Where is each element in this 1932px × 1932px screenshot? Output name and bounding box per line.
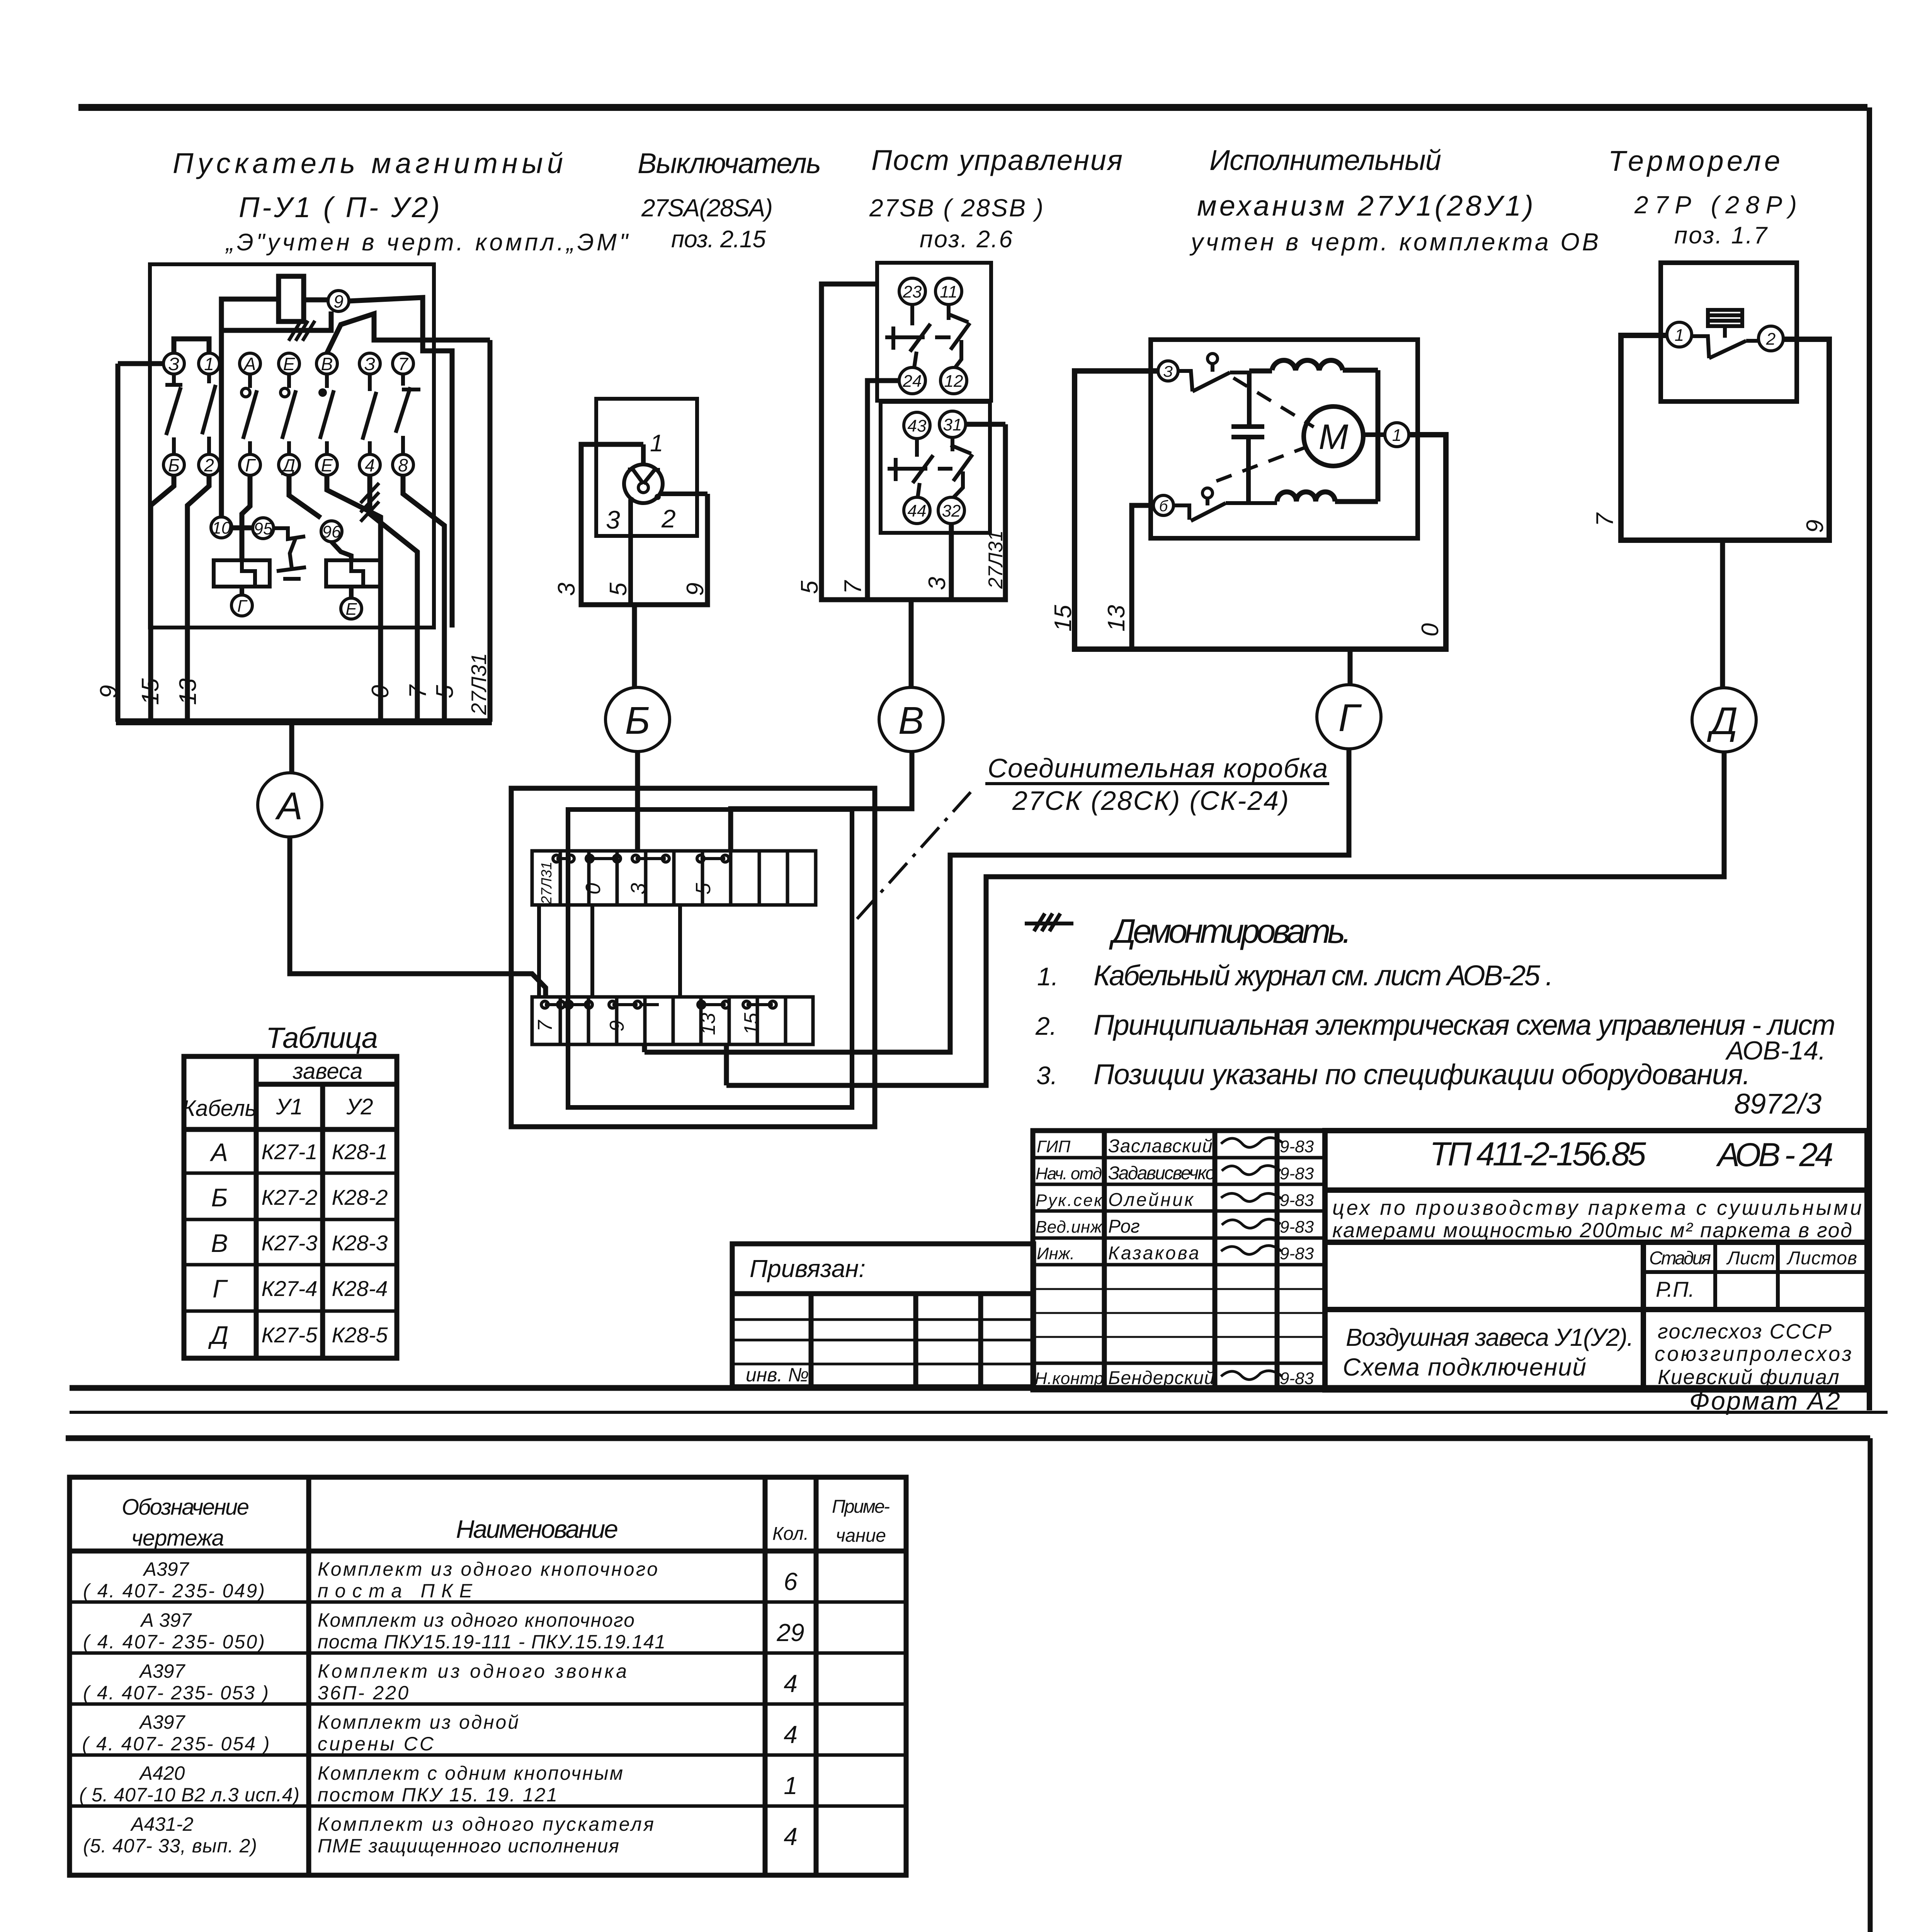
signature table entries xyxy=(1035,1136,1314,1388)
svg-text:поз. 1.7: поз. 1.7 xyxy=(1674,222,1768,249)
note 2 xyxy=(1035,1009,1835,1065)
control post 27SB assembly xyxy=(821,263,1005,600)
wire 32 down xyxy=(949,524,954,600)
relay inner box xyxy=(1661,263,1797,401)
lower strip labels xyxy=(534,1012,763,1035)
top terminal circles row xyxy=(163,353,413,374)
wire from Е to terminal 0 xyxy=(327,475,381,722)
jumper bracket over terminals 3-1 xyxy=(174,339,209,353)
svg-text:43: 43 xyxy=(908,417,927,435)
svg-text:Листов: Листов xyxy=(1786,1248,1857,1269)
cable table data xyxy=(208,1138,388,1349)
svg-text:З: З xyxy=(364,354,375,374)
svg-text:Позиции указаны по специфика: Позиции указаны по спецификации оборудов… xyxy=(1094,1058,1750,1090)
parts list header xyxy=(122,1495,890,1551)
post lower module box xyxy=(881,402,990,533)
svg-text:27Р (28Р): 27Р (28Р) xyxy=(1634,191,1797,219)
pin label 1 xyxy=(650,430,663,457)
junction box inner xyxy=(568,810,852,1107)
svg-text:У2: У2 xyxy=(346,1094,373,1119)
svg-text:завеса: завеса xyxy=(293,1059,362,1084)
svg-text:1: 1 xyxy=(204,354,214,374)
svg-text:27СК (28СК) (СК-24): 27СК (28СК) (СК-24) xyxy=(1012,786,1289,816)
svg-text:Выключатель: Выключатель xyxy=(638,147,821,179)
svg-text:13: 13 xyxy=(1103,605,1130,632)
title: control post header xyxy=(869,144,1122,253)
svg-text:7: 7 xyxy=(840,580,866,594)
svg-text:Нач. отд: Нач. отд xyxy=(1036,1164,1102,1183)
svg-text:9: 9 xyxy=(1802,520,1828,533)
svg-text:А: А xyxy=(243,354,256,374)
actuator 27У1 assembly xyxy=(1075,340,1446,649)
svg-text:Комплект с одним кнопочным: Комплект с одним кнопочным xyxy=(318,1762,623,1784)
svg-text:5: 5 xyxy=(605,582,632,596)
svg-text:К28-2: К28-2 xyxy=(332,1185,388,1209)
svg-text:10: 10 xyxy=(212,519,231,537)
post lower contact mushroom NC xyxy=(888,439,952,497)
contact 7 xyxy=(396,374,420,454)
post upper contact mushroom NC xyxy=(885,304,951,367)
switch 27SA assembly xyxy=(581,399,707,605)
svg-text:Д: Д xyxy=(1707,699,1738,743)
svg-text:8972/3: 8972/3 xyxy=(1734,1088,1821,1120)
svg-text:9: 9 xyxy=(333,291,344,311)
wire 31 to right edge xyxy=(966,422,1005,427)
parts row 5 xyxy=(79,1762,798,1806)
svg-text:1: 1 xyxy=(784,1772,798,1799)
contactor coil xyxy=(279,276,304,321)
svg-text:0: 0 xyxy=(582,883,605,895)
note 1 xyxy=(1037,959,1553,992)
wire 9 to internal node xyxy=(349,298,452,628)
svg-text:чертежа: чертежа xyxy=(131,1526,224,1551)
svg-text:Е: Е xyxy=(283,354,296,374)
lower winding xyxy=(1277,492,1378,502)
svg-text:2: 2 xyxy=(661,504,676,533)
svg-text:27SB ( 28SB ): 27SB ( 28SB ) xyxy=(869,194,1043,222)
svg-text:2: 2 xyxy=(1766,330,1776,349)
svg-text:К28-1: К28-1 xyxy=(332,1139,388,1164)
relay contact xyxy=(1692,336,1759,358)
svg-text:Е: Е xyxy=(345,600,357,619)
parts list table frame xyxy=(70,1477,906,1875)
svg-text:Комплект из одного звонка: Комплект из одного звонка xyxy=(318,1660,627,1682)
svg-text:Вед.инж: Вед.инж xyxy=(1036,1218,1103,1236)
lower strip jumper links xyxy=(541,1001,776,1008)
svg-text:Обозначение: Обозначение xyxy=(122,1495,249,1520)
svg-text:7: 7 xyxy=(405,684,431,698)
svg-text:Г: Г xyxy=(245,455,256,475)
cable В run xyxy=(731,752,912,851)
svg-text:К27-4: К27-4 xyxy=(261,1276,317,1301)
wire 24 to core 7 xyxy=(867,381,899,600)
cable Д drop wire xyxy=(1720,540,1725,689)
terminal circle 2 xyxy=(1759,326,1783,351)
movable bridge linkage 95-96 xyxy=(274,528,306,579)
svg-text:Задависвечко: Задависвечко xyxy=(1108,1163,1216,1184)
winding right wire xyxy=(1376,370,1381,502)
svg-text:цех по производству паркета с: цех по производству паркета с сушильными xyxy=(1332,1196,1862,1219)
svg-text:( 4. 407- 235- 053 ): ( 4. 407- 235- 053 ) xyxy=(83,1682,269,1704)
svg-text:Демонтировать.: Демонтировать. xyxy=(1109,912,1352,950)
svg-text:Е: Е xyxy=(321,455,333,475)
svg-text:27Л31: 27Л31 xyxy=(539,862,555,905)
svg-text:96: 96 xyxy=(322,522,341,541)
cable table frame xyxy=(184,1056,397,1358)
svg-text:сирены СС: сирены СС xyxy=(318,1733,434,1755)
svg-text:Пускатель магнитный: Пускатель магнитный xyxy=(173,147,563,179)
svg-text:27Л31: 27Л31 xyxy=(467,653,491,715)
post cable core labels xyxy=(796,577,951,594)
wire from 2 to terminal 13 xyxy=(187,475,209,722)
svg-text:7: 7 xyxy=(534,1019,556,1031)
svg-text:7: 7 xyxy=(1592,512,1618,526)
rotary switch symbol xyxy=(624,464,663,503)
svg-text:13: 13 xyxy=(175,679,201,705)
svg-text:механизм 27У1(28У1): механизм 27У1(28У1) xyxy=(1197,190,1533,222)
wire rotary to right edge xyxy=(661,492,707,496)
svg-text:Б: Б xyxy=(168,455,180,475)
svg-text:29: 29 xyxy=(776,1619,804,1646)
svg-text:5: 5 xyxy=(432,685,458,698)
contact 1 (pushbutton) xyxy=(165,374,182,454)
switch outer enclosure xyxy=(581,444,707,605)
cable marker circle Г xyxy=(1317,685,1381,749)
terminal circle Г xyxy=(231,595,252,616)
cable Д run xyxy=(726,752,1724,1085)
svg-text:15: 15 xyxy=(137,678,164,705)
svg-text:( 4. 407- 235- 050): ( 4. 407- 235- 050) xyxy=(83,1631,265,1653)
junction box upper terminal strip xyxy=(532,851,816,905)
svg-text:инв. №: инв. № xyxy=(746,1364,809,1386)
sheet1 attachment table xyxy=(732,1244,1034,1387)
svg-text:Д: Д xyxy=(281,455,295,475)
svg-text:„Э"учтен в черт. компл.„ЭМ": „Э"учтен в черт. компл.„ЭМ" xyxy=(225,229,629,256)
cable marker circle В xyxy=(879,687,943,752)
svg-text:9-83: 9-83 xyxy=(1280,1191,1314,1210)
upper strip labels xyxy=(539,862,715,905)
svg-text:поста ПКЕ: поста ПКЕ xyxy=(318,1580,473,1602)
upper winding xyxy=(1249,361,1378,371)
wire from Б to terminal 15 xyxy=(151,475,174,722)
svg-text:27Л31: 27Л31 xyxy=(985,530,1007,589)
svg-text:К27-2: К27-2 xyxy=(261,1185,317,1209)
svg-text:Комплект из одного кнопочного: Комплект из одного кнопочного xyxy=(318,1609,634,1631)
svg-text:5: 5 xyxy=(692,883,715,895)
parts row 4 xyxy=(82,1711,798,1755)
svg-text:ПМЕ защищенного исполнения: ПМЕ защищенного исполнения xyxy=(318,1835,619,1857)
svg-text:Пост управления: Пост управления xyxy=(871,144,1122,176)
svg-text:32: 32 xyxy=(942,502,961,520)
contact 4 with hook xyxy=(281,374,296,454)
svg-text:Соединительная коробка: Соединительная коробка xyxy=(988,753,1328,783)
svg-text:Формат А2: Формат А2 xyxy=(1689,1386,1840,1415)
wire rotary to bottom xyxy=(628,500,633,605)
cable Г drop wire xyxy=(1348,649,1353,685)
svg-text:Олейник: Олейник xyxy=(1108,1190,1194,1210)
sheet 2 top border xyxy=(66,1435,1870,1441)
wire terminal 3 to left edge xyxy=(118,361,163,366)
svg-text:5: 5 xyxy=(796,580,823,594)
right thermal element xyxy=(326,560,381,587)
sheet 1 top border rule xyxy=(78,104,1867,111)
svg-text:2.: 2. xyxy=(1035,1012,1057,1040)
svg-text:3.: 3. xyxy=(1036,1061,1058,1090)
svg-text:чание: чание xyxy=(836,1526,886,1546)
terminal circle 9 xyxy=(328,291,349,311)
svg-text:АОВ - 24: АОВ - 24 xyxy=(1716,1136,1833,1173)
svg-text:К28-4: К28-4 xyxy=(332,1276,388,1301)
svg-text:А420: А420 xyxy=(139,1762,185,1784)
svg-text:К28-3: К28-3 xyxy=(332,1231,388,1255)
svg-text:9: 9 xyxy=(606,1020,628,1032)
upper centrifugal contact xyxy=(1178,354,1249,391)
terminal circle 1 xyxy=(1363,423,1409,447)
capacitor xyxy=(1231,372,1264,502)
post label 27Л31 xyxy=(985,530,1007,589)
sheet divider rules xyxy=(70,1388,1888,1412)
switch cable core labels xyxy=(553,582,709,596)
svg-text:Рог: Рог xyxy=(1108,1216,1140,1237)
svg-text:3: 3 xyxy=(553,583,580,596)
wire to terminal Е xyxy=(349,587,354,598)
svg-text:27SA(28SA): 27SA(28SA) xyxy=(641,194,773,222)
pin labels 3 2 xyxy=(606,504,676,534)
svg-text:ТП 411-2-156.85: ТП 411-2-156.85 xyxy=(1430,1136,1646,1173)
svg-text:6: 6 xyxy=(784,1568,798,1595)
wire to terminal Г xyxy=(240,587,244,595)
strip interconnection wires xyxy=(539,905,680,997)
junction box lower terminal strip xyxy=(532,997,813,1044)
bottom terminal circles row xyxy=(163,454,413,475)
svg-text:9-83: 9-83 xyxy=(1280,1137,1314,1156)
contact 3 with hook xyxy=(241,374,257,454)
terminal circle 1 xyxy=(1667,322,1692,347)
svg-text:А397: А397 xyxy=(139,1660,186,1682)
document number 8972/3 xyxy=(1734,1088,1821,1120)
svg-text:95: 95 xyxy=(254,519,273,538)
svg-text:4: 4 xyxy=(784,1670,798,1697)
title: contactor header xyxy=(173,147,629,256)
demolition legend symbol xyxy=(1025,913,1073,931)
contact 6 xyxy=(362,374,376,454)
terminal circle З xyxy=(1158,361,1178,381)
svg-text:А431-2: А431-2 xyxy=(130,1813,193,1835)
post outer enclosure xyxy=(821,284,1005,600)
title: switch header xyxy=(638,147,821,253)
cable Б run xyxy=(635,752,640,851)
svg-text:Стадия: Стадия xyxy=(1649,1248,1711,1269)
svg-text:4: 4 xyxy=(784,1721,798,1748)
svg-text:ГИП: ГИП xyxy=(1037,1137,1070,1156)
wire from Д to contact 96 xyxy=(289,475,321,518)
dashed shaft links xyxy=(1216,378,1314,481)
svg-text:В: В xyxy=(898,699,924,742)
svg-text:А 397: А 397 xyxy=(140,1609,192,1631)
relay outer enclosure with feed wires xyxy=(1621,335,1829,540)
actuator cable core labels xyxy=(1050,605,1444,636)
svg-text:П-У1 ( П- У2): П-У1 ( П- У2) xyxy=(239,191,440,223)
svg-text:3: 3 xyxy=(606,505,620,534)
post lower terminals 43 31 44 32 xyxy=(904,411,966,524)
contact 2 xyxy=(202,374,216,454)
svg-text:Исполнительный: Исполнительный xyxy=(1209,144,1441,176)
svg-text:Р.П.: Р.П. xyxy=(1656,1277,1694,1301)
svg-text:Кол.: Кол. xyxy=(772,1524,809,1544)
svg-text:Лист: Лист xyxy=(1726,1248,1775,1269)
svg-text:Наименование: Наименование xyxy=(456,1515,618,1543)
upper strip jumper links xyxy=(553,855,729,862)
post lower contact NO xyxy=(951,437,973,497)
svg-text:( 5. 407-10 В2 л.3 исп.4): ( 5. 407-10 В2 л.3 исп.4) xyxy=(79,1784,299,1806)
signature squiggles xyxy=(1221,1138,1283,1379)
parts row 1 xyxy=(83,1558,798,1602)
svg-text:( 4. 407- 235- 049): ( 4. 407- 235- 049) xyxy=(83,1580,265,1602)
svg-text:Кабель: Кабель xyxy=(182,1096,257,1121)
svg-text:9-83: 9-83 xyxy=(1280,1218,1314,1236)
svg-text:4: 4 xyxy=(784,1823,798,1850)
relay cable core labels xyxy=(1592,512,1828,533)
svg-text:9: 9 xyxy=(682,583,709,596)
title block texts xyxy=(1332,1136,1862,1389)
svg-text:Комплект из одной: Комплект из одной xyxy=(318,1711,519,1733)
svg-text:3: 3 xyxy=(627,883,650,895)
wire from Г down to thermal element xyxy=(242,475,250,560)
svg-text:В: В xyxy=(321,354,333,374)
svg-text:А: А xyxy=(209,1138,228,1167)
actuator outer enclosure with feed wires xyxy=(1075,371,1446,649)
svg-text:Воздушная завеса У1(У2).: Воздушная завеса У1(У2). xyxy=(1346,1323,1634,1351)
parts row 3 xyxy=(83,1660,798,1704)
svg-text:Кабельный журнал см. лист А: Кабельный журнал см. лист АОВ-25 . xyxy=(1094,959,1553,992)
svg-text:9-83: 9-83 xyxy=(1280,1164,1314,1183)
svg-text:Б: Б xyxy=(625,699,650,742)
post upper contact NO xyxy=(947,304,970,367)
cable table title xyxy=(266,1022,378,1054)
svg-text:4: 4 xyxy=(365,455,375,475)
svg-text:2: 2 xyxy=(204,455,214,475)
svg-text:К27-1: К27-1 xyxy=(261,1139,317,1164)
cable marker circle Д xyxy=(1692,688,1756,752)
svg-text:1.: 1. xyxy=(1037,962,1058,991)
svg-text:З: З xyxy=(1163,363,1173,380)
wire B-top to right edge xyxy=(327,314,490,353)
svg-text:1: 1 xyxy=(1675,326,1684,345)
svg-text:А397: А397 xyxy=(139,1711,186,1733)
svg-text:7: 7 xyxy=(398,354,408,374)
wire 96 to right thermal element xyxy=(332,542,351,560)
svg-text:Принципиальная электрическая: Принципиальная электрическая схема управ… xyxy=(1094,1009,1835,1041)
terminal circle Е xyxy=(341,598,362,619)
format note xyxy=(1689,1386,1840,1415)
cable marker circle А xyxy=(258,773,322,837)
lower centrifugal contact xyxy=(1173,488,1277,521)
svg-text:36П- 220: 36П- 220 xyxy=(318,1682,408,1704)
svg-text:М: М xyxy=(1319,417,1349,457)
parts row 2 xyxy=(83,1609,804,1653)
svg-text:9: 9 xyxy=(95,685,122,698)
svg-text:1: 1 xyxy=(1392,426,1401,445)
svg-text:Комплект из одного кнопочног: Комплект из одного кнопочного xyxy=(318,1558,658,1580)
wire demolition bypass with hatch xyxy=(221,311,331,330)
svg-text:Привязан:: Привязан: xyxy=(750,1255,866,1282)
svg-text:учтен в черт. комплекта ОВ: учтен в черт. комплекта ОВ xyxy=(1189,228,1599,256)
svg-text:Термореле: Термореле xyxy=(1608,145,1780,177)
left thermal element xyxy=(214,560,270,587)
leader line to junction box xyxy=(857,792,971,919)
svg-text:( 4. 407- 235- 054 ): ( 4. 407- 235- 054 ) xyxy=(82,1733,270,1755)
cable table header text xyxy=(182,1059,373,1121)
svg-text:13: 13 xyxy=(697,1013,719,1035)
svg-text:поста ПКУ15.19-111 - ПКУ.15: поста ПКУ15.19-111 - ПКУ.15.19.141 xyxy=(318,1631,665,1653)
wire to rotary handle xyxy=(641,444,646,465)
svg-text:А397: А397 xyxy=(143,1558,190,1580)
svg-text:9-83: 9-83 xyxy=(1280,1244,1314,1263)
svg-text:гослесхоз СССР: гослесхоз СССР xyxy=(1658,1320,1832,1343)
svg-text:Таблица: Таблица xyxy=(266,1022,378,1054)
demolition legend text xyxy=(1109,912,1352,950)
svg-text:В: В xyxy=(211,1229,228,1257)
junction box 27СК outer xyxy=(511,788,875,1127)
svg-text:А: А xyxy=(275,784,303,828)
svg-text:Рук.сек: Рук.сек xyxy=(1036,1191,1103,1210)
svg-text:У1: У1 xyxy=(276,1094,303,1119)
cable Г run xyxy=(645,749,1349,1052)
wire б to bottom edge xyxy=(1132,505,1153,649)
svg-text:(5. 407- 33, вып. 2): (5. 407- 33, вып. 2) xyxy=(83,1835,257,1857)
post upper terminals 23 11 24 12 xyxy=(899,278,967,394)
svg-text:15: 15 xyxy=(1050,605,1077,631)
cable table row lines xyxy=(184,1173,397,1311)
svg-text:0: 0 xyxy=(1417,623,1444,636)
svg-text:Приме-: Приме- xyxy=(832,1497,890,1517)
svg-text:постом ПКУ 15. 19. 121: постом ПКУ 15. 19. 121 xyxy=(318,1784,557,1806)
svg-text:б: б xyxy=(1159,498,1168,515)
svg-text:К28-5: К28-5 xyxy=(332,1323,388,1347)
svg-text:поз. 2.15: поз. 2.15 xyxy=(671,226,766,253)
svg-text:Д: Д xyxy=(208,1321,228,1349)
svg-text:союзгипролесхоз: союзгипролесхоз xyxy=(1655,1342,1852,1366)
svg-text:К27-5: К27-5 xyxy=(261,1323,318,1347)
svg-text:23: 23 xyxy=(903,282,922,301)
svg-text:Г: Г xyxy=(1338,696,1362,740)
post upper module box xyxy=(877,263,991,401)
svg-text:Казакова: Казакова xyxy=(1108,1243,1199,1264)
thermal relay 27Р assembly xyxy=(1621,263,1829,540)
cable Б drop wire xyxy=(632,605,637,688)
svg-text:К27-3: К27-3 xyxy=(261,1231,317,1255)
auxiliary terminals 10 95 96 xyxy=(211,517,342,542)
svg-text:З: З xyxy=(168,354,179,374)
contactor inner box xyxy=(150,264,434,628)
wire from 4 to terminal 7 with hatch xyxy=(361,475,417,722)
svg-text:0: 0 xyxy=(367,685,394,698)
parts row 6 xyxy=(83,1813,798,1857)
sheet 1 right border xyxy=(1867,107,1872,1410)
svg-text:Г: Г xyxy=(213,1274,228,1303)
contact 5 with dot xyxy=(318,374,334,454)
svg-text:поз. 2.6: поз. 2.6 xyxy=(920,226,1013,253)
parts list row lines xyxy=(70,1602,906,1806)
svg-text:31: 31 xyxy=(943,415,962,434)
title: actuator header xyxy=(1189,144,1599,256)
sheet 2 right border xyxy=(1868,1438,1873,1932)
svg-text:44: 44 xyxy=(908,502,927,520)
contactor outer enclosure xyxy=(116,340,492,722)
magnetic contactor П-У1 (П-У2) assembly xyxy=(150,264,434,628)
svg-text:8: 8 xyxy=(398,455,408,475)
note 3 xyxy=(1036,1058,1750,1090)
